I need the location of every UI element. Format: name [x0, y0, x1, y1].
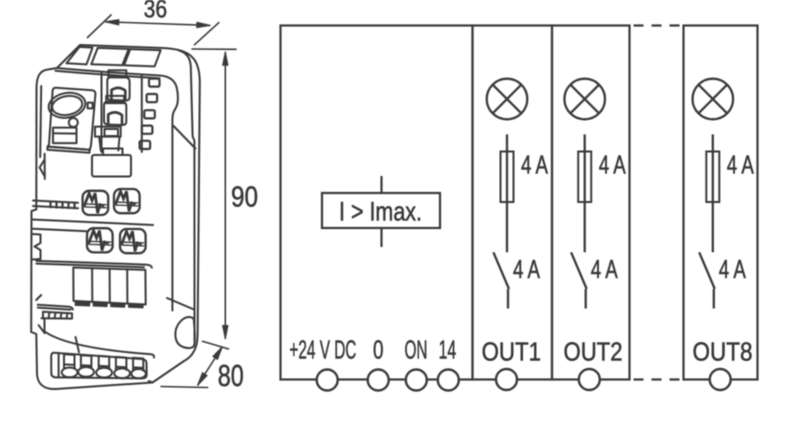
ledge hatch	[51, 202, 75, 209]
connector R2a	[87, 228, 113, 252]
terminal block left wall	[58, 353, 60, 377]
dashed wire bottom (omitted channels)	[634, 378, 684, 380]
led window 5	[140, 141, 151, 149]
connector R1a	[83, 191, 109, 215]
module bevel diagonal	[174, 126, 196, 149]
step rect 2	[105, 129, 119, 136]
wire OUT8 upper	[712, 134, 714, 252]
connector R2b	[120, 229, 146, 253]
lamp OUT8	[693, 79, 734, 120]
speaker panel	[48, 88, 96, 150]
channel line right	[141, 75, 143, 152]
led window 1	[149, 79, 160, 87]
din clip foot	[36, 295, 45, 333]
channel OUT2 symbols	[564, 79, 605, 309]
overcurrent block I > Imax.	[322, 176, 440, 247]
din clip hooks	[32, 234, 41, 260]
inner left face line	[40, 86, 41, 157]
switch OUT2	[571, 252, 587, 308]
terminal OUT8	[710, 369, 731, 390]
terminal OUT2	[579, 369, 600, 390]
main box (power/control block)	[281, 26, 473, 380]
clamp tower 2 cap	[106, 96, 124, 103]
side oval cutout	[175, 317, 194, 348]
terminal screws	[62, 367, 146, 378]
svg-text:4 A: 4 A	[599, 150, 626, 180]
mid step line 2	[33, 229, 87, 232]
svg-text:4 A: 4 A	[591, 254, 618, 284]
label rect cap	[103, 149, 123, 156]
lamp OUT1	[487, 79, 528, 120]
switch OUT8	[699, 252, 715, 308]
slat feet	[75, 302, 143, 308]
svg-text:+24 V DC: +24 V DC	[289, 335, 356, 365]
svg-text:OUT8: OUT8	[693, 337, 753, 367]
svg-text:14: 14	[439, 335, 457, 365]
bottom hatch strip	[43, 312, 72, 319]
clamp tower 2	[104, 102, 126, 126]
svg-text:0: 0	[373, 335, 384, 365]
bottom face edge	[149, 381, 153, 383]
clamp tower 2 arch	[108, 112, 122, 124]
ledge line upper	[33, 201, 78, 209]
clamp tower 1 arch	[112, 88, 126, 100]
label rect	[92, 155, 131, 177]
svg-text:OUT2: OUT2	[564, 337, 623, 367]
svg-text:4 A: 4 A	[727, 150, 754, 180]
side corner diagonal	[167, 298, 194, 310]
speaker panel lower lip	[47, 147, 90, 153]
block under speaker	[53, 128, 77, 144]
box OUT1	[473, 26, 553, 380]
vent slot 1	[67, 47, 93, 65]
terminal ON	[406, 370, 427, 391]
slat band top lines	[36, 261, 151, 268]
box OUT2	[552, 26, 630, 380]
svg-text:36: 36	[144, 0, 168, 24]
module drawing	[31, 45, 200, 389]
wire OUT1 upper	[506, 134, 508, 252]
module top face front edge and bezel corner	[57, 68, 178, 311]
bottom ledge lines	[38, 305, 73, 310]
angled face edge	[76, 337, 80, 352]
svg-text:OUT1: OUT1	[482, 337, 541, 367]
terminal block frame	[51, 353, 147, 379]
speaker outer ring	[47, 90, 88, 121]
step rect 1	[95, 127, 121, 137]
fuse F2 4A	[578, 152, 591, 203]
connector R1b	[114, 189, 140, 213]
terminal 0	[368, 370, 389, 391]
clamp tower 1 cap	[108, 70, 126, 77]
fuse F1 4A	[501, 152, 514, 203]
vent slot 3	[124, 49, 161, 66]
module front rim second line	[56, 71, 160, 79]
box OUT8	[684, 26, 758, 380]
speaker inner ring	[51, 94, 84, 118]
wire OUT2 upper	[584, 134, 586, 252]
module side ridge	[179, 51, 195, 342]
terminal 14	[438, 370, 459, 391]
svg-text:ON: ON	[405, 335, 428, 365]
module outer silhouette	[31, 45, 200, 389]
terminal +24V DC	[317, 370, 338, 391]
svg-text:4 A: 4 A	[513, 254, 540, 284]
svg-text:90: 90	[231, 182, 258, 214]
vent slot 2	[91, 48, 128, 65]
slat divider 1	[91, 268, 93, 302]
channel line left	[101, 73, 103, 153]
svg-text:I > Imax.: I > Imax.	[339, 197, 422, 227]
led window 4	[142, 126, 153, 134]
terminal OUT1	[496, 369, 517, 390]
terminal slots	[64, 354, 143, 370]
svg-text:80: 80	[218, 358, 244, 393]
dimension 90	[191, 49, 236, 349]
switch OUT1	[493, 252, 509, 308]
terminal recess curve	[44, 331, 154, 358]
dimension 36	[87, 15, 219, 46]
left edge hook	[40, 154, 45, 179]
dimension 80	[160, 347, 222, 388]
led window 3	[144, 110, 155, 118]
lamp OUT2	[564, 79, 605, 120]
terminal circles	[317, 369, 731, 391]
mid step line 1	[32, 220, 153, 226]
terminal slat band	[73, 268, 145, 305]
svg-text:4 A: 4 A	[719, 254, 746, 284]
svg-text:4 A: 4 A	[521, 150, 548, 180]
tower base lines	[99, 137, 119, 151]
fuse F8 4A	[706, 152, 719, 203]
slat divider 2	[109, 269, 111, 303]
dashed wire top (omitted channels)	[634, 24, 684, 26]
channel OUT1 symbols	[487, 79, 528, 309]
speaker small knob	[69, 118, 78, 127]
clamp tower 1	[107, 77, 129, 101]
panel side tab	[88, 103, 93, 109]
channel OUT8 symbols	[693, 79, 734, 309]
led window 2	[147, 94, 158, 102]
slat divider 3	[126, 269, 128, 303]
